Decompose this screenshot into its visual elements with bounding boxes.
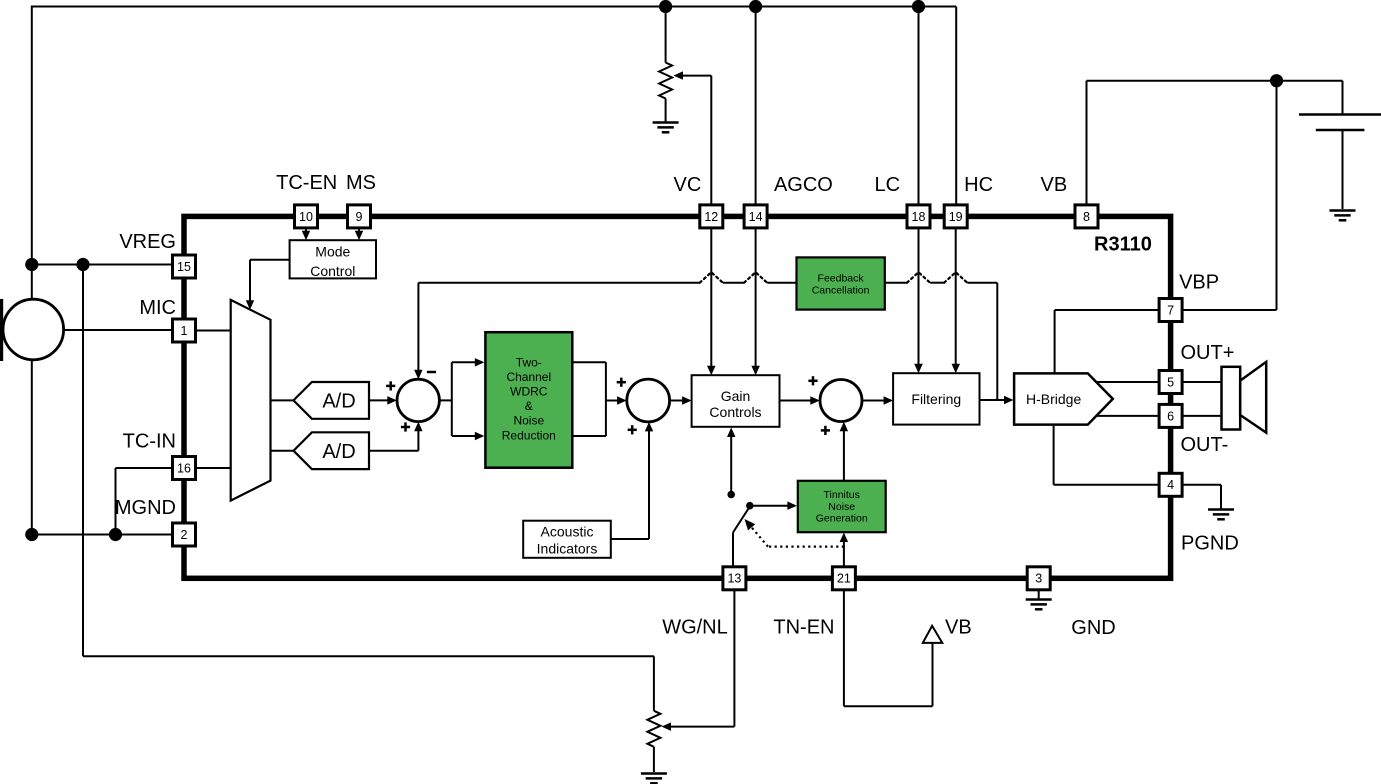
svg-text:TC-EN: TC-EN xyxy=(276,172,337,194)
svg-text:12: 12 xyxy=(704,210,718,224)
svg-text:VBP: VBP xyxy=(1179,272,1219,294)
svg-text:OUT+: OUT+ xyxy=(1181,342,1235,364)
svg-text:7: 7 xyxy=(1167,303,1174,317)
svg-text:R3110: R3110 xyxy=(1094,234,1152,256)
svg-text:PGND: PGND xyxy=(1181,532,1239,554)
svg-text:Acoustic: Acoustic xyxy=(541,524,594,540)
svg-text:VC: VC xyxy=(674,174,702,196)
svg-text:Noise: Noise xyxy=(513,414,544,428)
svg-text:15: 15 xyxy=(177,260,191,274)
svg-text:MGND: MGND xyxy=(115,497,176,519)
svg-text:9: 9 xyxy=(356,210,363,224)
svg-text:Generation: Generation xyxy=(816,513,868,525)
svg-text:Indicators: Indicators xyxy=(537,541,598,557)
svg-text:2: 2 xyxy=(181,528,188,542)
svg-text:Gain: Gain xyxy=(721,388,751,404)
svg-text:Channel: Channel xyxy=(506,370,551,384)
svg-text:Noise: Noise xyxy=(828,501,855,513)
svg-text:5: 5 xyxy=(1167,375,1174,389)
svg-text:Cancellation: Cancellation xyxy=(812,285,870,297)
svg-text:GND: GND xyxy=(1071,617,1115,639)
svg-text:VB: VB xyxy=(945,617,972,639)
svg-text:WG/NL: WG/NL xyxy=(662,617,728,639)
svg-text:Control: Control xyxy=(310,263,355,279)
svg-text:Tinnitus: Tinnitus xyxy=(824,489,860,501)
svg-text:6: 6 xyxy=(1167,409,1174,423)
svg-text:3: 3 xyxy=(1035,572,1042,586)
svg-text:MIC: MIC xyxy=(139,297,176,319)
svg-text:HC: HC xyxy=(964,174,993,196)
svg-text:VB: VB xyxy=(1041,174,1068,196)
svg-text:OUT-: OUT- xyxy=(1181,434,1229,456)
svg-text:18: 18 xyxy=(912,210,926,224)
svg-text:13: 13 xyxy=(727,572,741,586)
svg-text:Two-: Two- xyxy=(516,355,542,369)
svg-text:4: 4 xyxy=(1167,478,1174,492)
svg-text:16: 16 xyxy=(177,461,191,475)
svg-text:1: 1 xyxy=(181,324,188,338)
svg-text:A/D: A/D xyxy=(322,391,355,413)
svg-text:TN-EN: TN-EN xyxy=(773,617,834,639)
svg-text:Filtering: Filtering xyxy=(911,391,961,407)
svg-text:14: 14 xyxy=(749,210,763,224)
svg-text:H-Bridge: H-Bridge xyxy=(1026,391,1081,407)
svg-text:21: 21 xyxy=(837,572,851,586)
svg-text:Reduction: Reduction xyxy=(502,428,556,442)
svg-text:19: 19 xyxy=(949,210,963,224)
svg-text:10: 10 xyxy=(299,210,313,224)
svg-text:Feedback: Feedback xyxy=(818,273,865,285)
svg-text:MS: MS xyxy=(346,172,376,194)
svg-text:Controls: Controls xyxy=(709,404,761,420)
svg-text:WDRC: WDRC xyxy=(510,385,548,399)
svg-text:8: 8 xyxy=(1083,210,1090,224)
svg-text:Mode: Mode xyxy=(315,244,350,260)
svg-text:&: & xyxy=(525,399,533,413)
svg-text:AGCO: AGCO xyxy=(774,174,833,196)
svg-text:VREG: VREG xyxy=(119,231,176,253)
svg-text:TC-IN: TC-IN xyxy=(123,431,176,453)
svg-text:LC: LC xyxy=(875,174,901,196)
svg-text:A/D: A/D xyxy=(322,441,355,463)
